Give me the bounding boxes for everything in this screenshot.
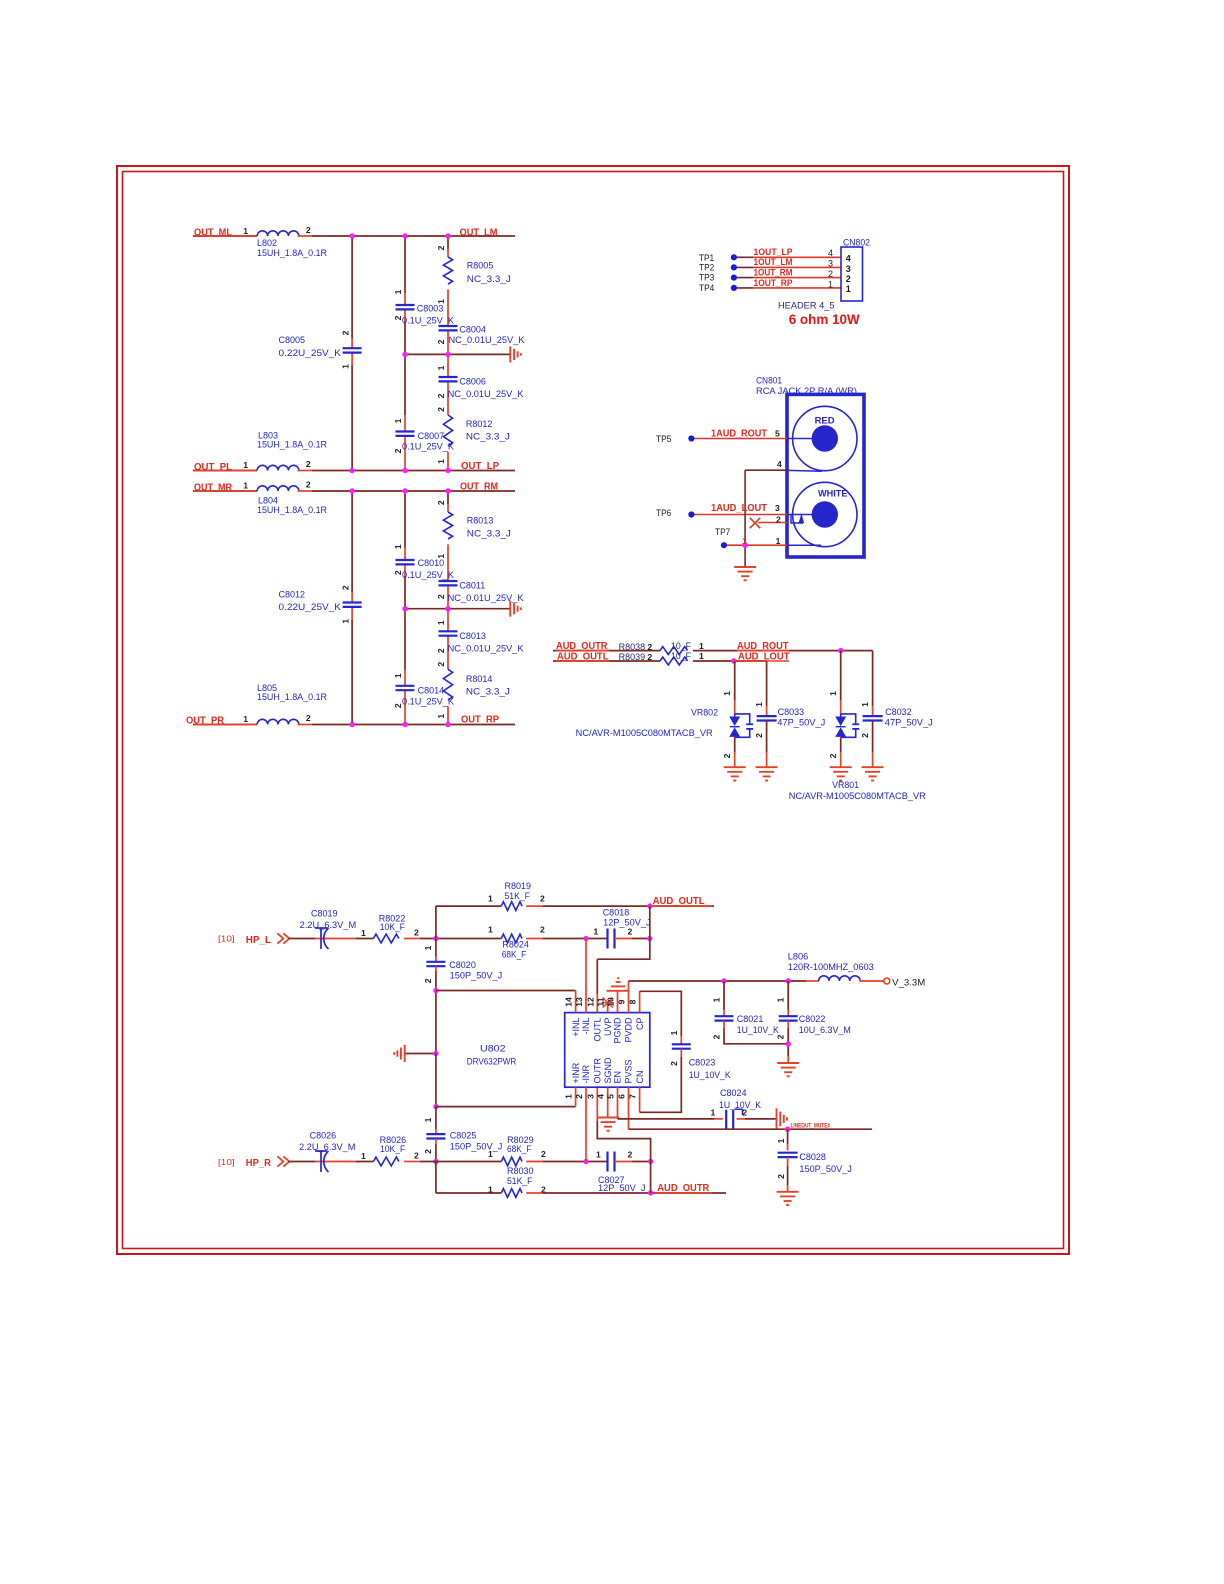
svg-text:0.1U_25V_K: 0.1U_25V_K xyxy=(402,316,454,326)
svg-text:2: 2 xyxy=(647,642,652,652)
svg-text:2: 2 xyxy=(541,1184,546,1194)
svg-text:OUT_LP: OUT_LP xyxy=(461,461,499,472)
svg-text:C8003: C8003 xyxy=(417,304,444,314)
svg-text:68K_F: 68K_F xyxy=(507,1144,532,1154)
svg-text:1: 1 xyxy=(436,554,446,559)
svg-text:12P_50V_J: 12P_50V_J xyxy=(598,1183,646,1193)
svg-text:2: 2 xyxy=(711,1034,721,1039)
svg-text:150P_50V_J: 150P_50V_J xyxy=(450,971,503,981)
svg-text:1AUD_ROUT: 1AUD_ROUT xyxy=(711,429,767,440)
svg-text:AUD_OUTL: AUD_OUTL xyxy=(653,896,705,907)
svg-text:CN802: CN802 xyxy=(843,237,870,247)
svg-text:10K_F: 10K_F xyxy=(380,1144,406,1154)
svg-text:2: 2 xyxy=(436,393,446,398)
svg-text:0.22U_25V_K: 0.22U_25V_K xyxy=(279,348,342,358)
svg-text:2: 2 xyxy=(647,652,652,662)
svg-text:AUD_LOUT: AUD_LOUT xyxy=(738,652,790,663)
svg-text:1: 1 xyxy=(340,619,350,624)
svg-text:C8013: C8013 xyxy=(459,631,486,641)
svg-text:2: 2 xyxy=(775,1034,785,1039)
svg-text:RED: RED xyxy=(815,415,835,426)
svg-text:-INL: -INL xyxy=(581,1018,591,1035)
svg-text:R8024: R8024 xyxy=(502,939,529,949)
svg-text:1: 1 xyxy=(361,1151,366,1161)
svg-text:AUD_OUTR: AUD_OUTR xyxy=(556,641,608,652)
svg-text:TP5: TP5 xyxy=(656,434,671,444)
svg-text:2: 2 xyxy=(436,594,446,599)
svg-text:1: 1 xyxy=(436,714,446,719)
svg-text:1: 1 xyxy=(860,702,870,707)
svg-text:3: 3 xyxy=(775,503,780,513)
svg-text:R8005: R8005 xyxy=(467,261,494,271)
svg-text:0.1U_25V_K: 0.1U_25V_K xyxy=(402,696,454,706)
svg-text:1: 1 xyxy=(722,691,732,696)
svg-text:C8021: C8021 xyxy=(737,1014,764,1024)
svg-text:1: 1 xyxy=(423,1117,433,1122)
svg-text:120R-100MHZ_0603: 120R-100MHZ_0603 xyxy=(788,962,874,972)
svg-text:4: 4 xyxy=(596,1094,606,1099)
svg-text:C8022: C8022 xyxy=(799,1014,826,1024)
svg-text:2: 2 xyxy=(722,753,732,758)
svg-text:2: 2 xyxy=(669,1061,679,1066)
svg-text:NC/AVR-M1005C080MTACB_VR: NC/AVR-M1005C080MTACB_VR xyxy=(789,791,927,801)
svg-text:OUT_PR: OUT_PR xyxy=(186,716,225,727)
svg-text:OUTR: OUTR xyxy=(593,1058,603,1084)
svg-text:U802: U802 xyxy=(480,1044,506,1054)
svg-text:UVP: UVP xyxy=(603,1018,613,1037)
svg-text:1: 1 xyxy=(393,544,403,549)
svg-text:10U_6.3V_M: 10U_6.3V_M xyxy=(799,1025,851,1035)
svg-text:VR801: VR801 xyxy=(832,780,859,790)
svg-text:2: 2 xyxy=(776,514,781,524)
svg-text:5: 5 xyxy=(775,429,780,439)
svg-text:2: 2 xyxy=(776,1174,786,1179)
svg-text:1: 1 xyxy=(776,536,781,546)
svg-text:10K_F: 10K_F xyxy=(380,922,406,932)
svg-text:C8012: C8012 xyxy=(279,590,306,600)
svg-text:HEADER 4_5: HEADER 4_5 xyxy=(778,300,835,310)
svg-text:CN: CN xyxy=(635,1071,645,1084)
svg-text:15UH_1.8A_0.1R: 15UH_1.8A_0.1R xyxy=(257,505,327,515)
svg-text:1: 1 xyxy=(436,299,446,304)
svg-text:4: 4 xyxy=(777,459,782,469)
svg-text:1: 1 xyxy=(594,926,599,936)
svg-text:2: 2 xyxy=(340,330,350,335)
svg-text:2: 2 xyxy=(306,480,311,490)
svg-text:+INL: +INL xyxy=(571,1018,581,1037)
svg-text:2: 2 xyxy=(541,1149,546,1159)
svg-text:C8025: C8025 xyxy=(450,1131,477,1141)
svg-text:NC_0.01U_25V_K: NC_0.01U_25V_K xyxy=(448,389,524,399)
svg-text:2: 2 xyxy=(340,585,350,590)
svg-text:1OUT_LM: 1OUT_LM xyxy=(754,257,793,267)
svg-text:3: 3 xyxy=(828,259,833,269)
svg-text:2: 2 xyxy=(436,339,446,344)
svg-text:C8020: C8020 xyxy=(449,960,476,970)
svg-text:EN: EN xyxy=(613,1071,623,1084)
svg-text:0.22U_25V_K: 0.22U_25V_K xyxy=(279,602,342,612)
svg-text:1: 1 xyxy=(436,459,446,464)
svg-text:13: 13 xyxy=(574,997,584,1007)
svg-text:NC_3.3_J: NC_3.3_J xyxy=(466,432,510,442)
svg-text:1: 1 xyxy=(775,997,785,1002)
svg-text:2: 2 xyxy=(628,1149,633,1159)
svg-text:HP_L: HP_L xyxy=(246,935,271,946)
svg-text:68K_F: 68K_F xyxy=(502,949,527,959)
svg-text:1: 1 xyxy=(393,418,403,423)
svg-text:NC_3.3_J: NC_3.3_J xyxy=(467,529,511,539)
svg-text:8: 8 xyxy=(628,999,638,1004)
svg-text:0.1U_25V_K: 0.1U_25V_K xyxy=(402,442,454,452)
svg-text:15UH_1.8A_0.1R: 15UH_1.8A_0.1R xyxy=(257,248,327,258)
svg-text:11: 11 xyxy=(596,997,606,1006)
svg-text:14: 14 xyxy=(564,997,574,1007)
svg-text:[10]: [10] xyxy=(218,1157,235,1167)
svg-text:C8018: C8018 xyxy=(603,908,630,918)
svg-text:TP3: TP3 xyxy=(699,273,714,283)
svg-text:DRV632PWR: DRV632PWR xyxy=(467,1056,517,1066)
svg-text:C8019: C8019 xyxy=(311,908,338,918)
svg-text:-INR: -INR xyxy=(581,1065,591,1084)
svg-text:VR802: VR802 xyxy=(691,707,718,717)
svg-text:2: 2 xyxy=(414,1151,419,1161)
svg-text:2: 2 xyxy=(306,225,311,235)
svg-text:2.2U_6.3V_M: 2.2U_6.3V_M xyxy=(299,1142,356,1152)
svg-text:OUT_ML: OUT_ML xyxy=(194,227,232,238)
svg-text:1: 1 xyxy=(711,1108,716,1118)
svg-text:4: 4 xyxy=(828,248,833,258)
svg-text:15UH_1.8A_0.1R: 15UH_1.8A_0.1R xyxy=(257,440,327,450)
svg-text:1: 1 xyxy=(361,928,366,938)
svg-text:PVSS: PVSS xyxy=(624,1059,634,1083)
svg-text:1: 1 xyxy=(393,673,403,678)
svg-text:1: 1 xyxy=(564,1094,574,1099)
svg-text:NC_0.01U_25V_K: NC_0.01U_25V_K xyxy=(448,593,524,603)
svg-text:2: 2 xyxy=(828,753,838,758)
svg-text:C8005: C8005 xyxy=(279,335,306,345)
svg-text:2: 2 xyxy=(306,713,311,723)
svg-text:6: 6 xyxy=(616,1094,626,1099)
svg-text:2: 2 xyxy=(306,459,311,469)
svg-text:51K_F: 51K_F xyxy=(505,891,531,901)
svg-text:LINEOUT_MUTE#: LINEOUT_MUTE# xyxy=(791,1122,831,1129)
svg-text:SGND: SGND xyxy=(603,1057,613,1084)
svg-text:1: 1 xyxy=(488,894,493,904)
svg-text:R8013: R8013 xyxy=(467,515,494,525)
svg-text:TP7: TP7 xyxy=(715,527,730,537)
svg-text:L806: L806 xyxy=(788,951,809,961)
svg-text:C8011: C8011 xyxy=(459,581,485,591)
svg-text:1: 1 xyxy=(699,651,704,661)
svg-text:1: 1 xyxy=(243,481,248,491)
svg-text:[10]: [10] xyxy=(218,934,235,944)
svg-text:2.2U_6.3V_M: 2.2U_6.3V_M xyxy=(300,920,357,930)
svg-text:150P_50V_J: 150P_50V_J xyxy=(450,1141,503,1151)
svg-text:2: 2 xyxy=(423,1149,433,1154)
svg-text:9: 9 xyxy=(616,999,626,1004)
svg-text:R8012: R8012 xyxy=(466,419,493,429)
svg-text:R8019: R8019 xyxy=(505,881,532,891)
svg-text:2: 2 xyxy=(436,407,446,412)
svg-text:R8039: R8039 xyxy=(619,652,646,662)
svg-text:1: 1 xyxy=(243,460,248,470)
svg-text:2: 2 xyxy=(828,269,833,279)
svg-text:1: 1 xyxy=(596,1149,601,1159)
svg-text:2: 2 xyxy=(436,662,446,667)
svg-text:1AUD_LOUT: 1AUD_LOUT xyxy=(711,503,767,514)
svg-text:1: 1 xyxy=(340,364,350,369)
svg-text:1: 1 xyxy=(488,1149,493,1159)
svg-text:1: 1 xyxy=(846,284,851,294)
svg-text:AUD_OUTR: AUD_OUTR xyxy=(657,1183,710,1194)
svg-text:1: 1 xyxy=(828,691,838,696)
svg-text:TP1: TP1 xyxy=(699,253,714,263)
svg-text:TP2: TP2 xyxy=(699,263,714,273)
svg-text:OUT_PL: OUT_PL xyxy=(194,462,232,473)
svg-text:1U_10V_K: 1U_10V_K xyxy=(737,1025,779,1035)
svg-text:2: 2 xyxy=(393,570,403,575)
svg-text:1OUT_RM: 1OUT_RM xyxy=(754,268,793,278)
svg-text:1OUT_LP: 1OUT_LP xyxy=(754,247,793,257)
svg-text:2: 2 xyxy=(742,1108,747,1118)
svg-text:PGND: PGND xyxy=(613,1017,623,1044)
svg-text:15UH_1.8A_0.1R: 15UH_1.8A_0.1R xyxy=(257,692,327,702)
svg-text:1: 1 xyxy=(776,1138,786,1143)
svg-text:1: 1 xyxy=(742,536,747,546)
svg-text:1: 1 xyxy=(436,620,446,625)
svg-text:2: 2 xyxy=(436,500,446,505)
svg-text:1: 1 xyxy=(393,289,403,294)
svg-text:7: 7 xyxy=(628,1094,638,1099)
svg-text:2: 2 xyxy=(846,274,851,284)
svg-text:R8014: R8014 xyxy=(466,674,493,684)
svg-text:1: 1 xyxy=(488,1184,493,1194)
svg-text:2: 2 xyxy=(860,733,870,738)
svg-text:NC_3.3_J: NC_3.3_J xyxy=(466,687,510,697)
svg-text:6 ohm 10W: 6 ohm 10W xyxy=(789,311,861,327)
svg-text:C8026: C8026 xyxy=(310,1131,337,1141)
svg-text:2: 2 xyxy=(540,924,545,934)
svg-text:1U_10V_K: 1U_10V_K xyxy=(719,1100,761,1110)
svg-text:51K_F: 51K_F xyxy=(507,1176,533,1186)
svg-text:1: 1 xyxy=(699,641,704,651)
svg-text:OUT_MR: OUT_MR xyxy=(194,482,233,493)
svg-text:2: 2 xyxy=(414,928,419,938)
svg-text:CP: CP xyxy=(635,1018,645,1031)
svg-text:AUD_OUTL: AUD_OUTL xyxy=(557,652,609,663)
svg-text:3: 3 xyxy=(846,264,851,274)
svg-text:3: 3 xyxy=(585,1094,595,1099)
svg-text:C8004: C8004 xyxy=(459,324,486,334)
svg-text:TP4: TP4 xyxy=(699,283,714,293)
svg-text:1U_10V_K: 1U_10V_K xyxy=(689,1070,731,1080)
svg-text:10_F: 10_F xyxy=(671,641,691,651)
svg-text:C8006: C8006 xyxy=(459,376,486,386)
svg-text:10: 10 xyxy=(605,997,615,1007)
svg-text:R8030: R8030 xyxy=(507,1166,534,1176)
svg-text:1: 1 xyxy=(669,1030,679,1035)
svg-text:NC_3.3_J: NC_3.3_J xyxy=(467,274,511,284)
svg-text:47P_50V_J: 47P_50V_J xyxy=(885,717,933,727)
svg-text:OUT_RP: OUT_RP xyxy=(461,715,499,726)
svg-text:10_F: 10_F xyxy=(671,651,691,661)
svg-text:2: 2 xyxy=(628,926,633,936)
svg-text:OUT_RM: OUT_RM xyxy=(460,482,498,493)
svg-text:C8007: C8007 xyxy=(418,431,445,441)
svg-text:4: 4 xyxy=(846,254,851,264)
svg-text:+INR: +INR xyxy=(571,1062,581,1083)
svg-text:TP6: TP6 xyxy=(656,508,671,518)
svg-text:1: 1 xyxy=(828,279,833,289)
svg-text:150P_50V_J: 150P_50V_J xyxy=(799,1164,852,1174)
svg-text:AUD_ROUT: AUD_ROUT xyxy=(737,641,789,652)
svg-text:C8033: C8033 xyxy=(778,707,805,717)
svg-text:12: 12 xyxy=(585,997,595,1007)
svg-text:2: 2 xyxy=(393,448,403,453)
svg-text:1: 1 xyxy=(423,945,433,950)
svg-text:C8023: C8023 xyxy=(689,1058,716,1068)
svg-text:C8028: C8028 xyxy=(799,1152,826,1162)
svg-text:2: 2 xyxy=(436,648,446,653)
svg-text:5: 5 xyxy=(605,1094,615,1099)
svg-text:47P_50V_J: 47P_50V_J xyxy=(777,717,825,727)
svg-text:1: 1 xyxy=(436,365,446,370)
svg-text:C8014: C8014 xyxy=(418,686,445,696)
svg-text:1: 1 xyxy=(754,702,764,707)
svg-text:NC/AVR-M1005C080MTACB_VR: NC/AVR-M1005C080MTACB_VR xyxy=(576,728,714,738)
svg-text:2: 2 xyxy=(436,245,446,250)
svg-text:R8038: R8038 xyxy=(619,642,646,652)
svg-text:OUT_LM: OUT_LM xyxy=(460,227,498,238)
svg-text:NC_0.01U_25V_K: NC_0.01U_25V_K xyxy=(448,644,524,654)
svg-text:1: 1 xyxy=(243,226,248,236)
svg-text:0.1U_25V_K: 0.1U_25V_K xyxy=(402,570,454,580)
svg-text:HP_R: HP_R xyxy=(246,1158,272,1169)
svg-text:OUTL: OUTL xyxy=(593,1018,603,1042)
svg-text:2: 2 xyxy=(754,733,764,738)
svg-text:2: 2 xyxy=(393,315,403,320)
svg-text:L802: L802 xyxy=(257,238,277,248)
svg-text:1: 1 xyxy=(243,714,248,724)
svg-text:WHITE: WHITE xyxy=(818,488,848,499)
svg-text:1OUT_RP: 1OUT_RP xyxy=(754,278,793,288)
svg-text:2: 2 xyxy=(574,1094,584,1099)
svg-text:C8032: C8032 xyxy=(885,707,912,717)
svg-text:CN801: CN801 xyxy=(756,375,782,385)
svg-text:2: 2 xyxy=(423,978,433,983)
svg-text:V_3.3M: V_3.3M xyxy=(892,977,925,987)
svg-text:1: 1 xyxy=(488,924,493,934)
svg-text:NC_0.01U_25V_K: NC_0.01U_25V_K xyxy=(449,335,525,345)
svg-text:PVDD: PVDD xyxy=(624,1017,634,1043)
svg-text:2: 2 xyxy=(540,894,545,904)
svg-text:C8024: C8024 xyxy=(720,1088,747,1098)
svg-text:1: 1 xyxy=(711,997,721,1002)
svg-text:2: 2 xyxy=(393,703,403,708)
